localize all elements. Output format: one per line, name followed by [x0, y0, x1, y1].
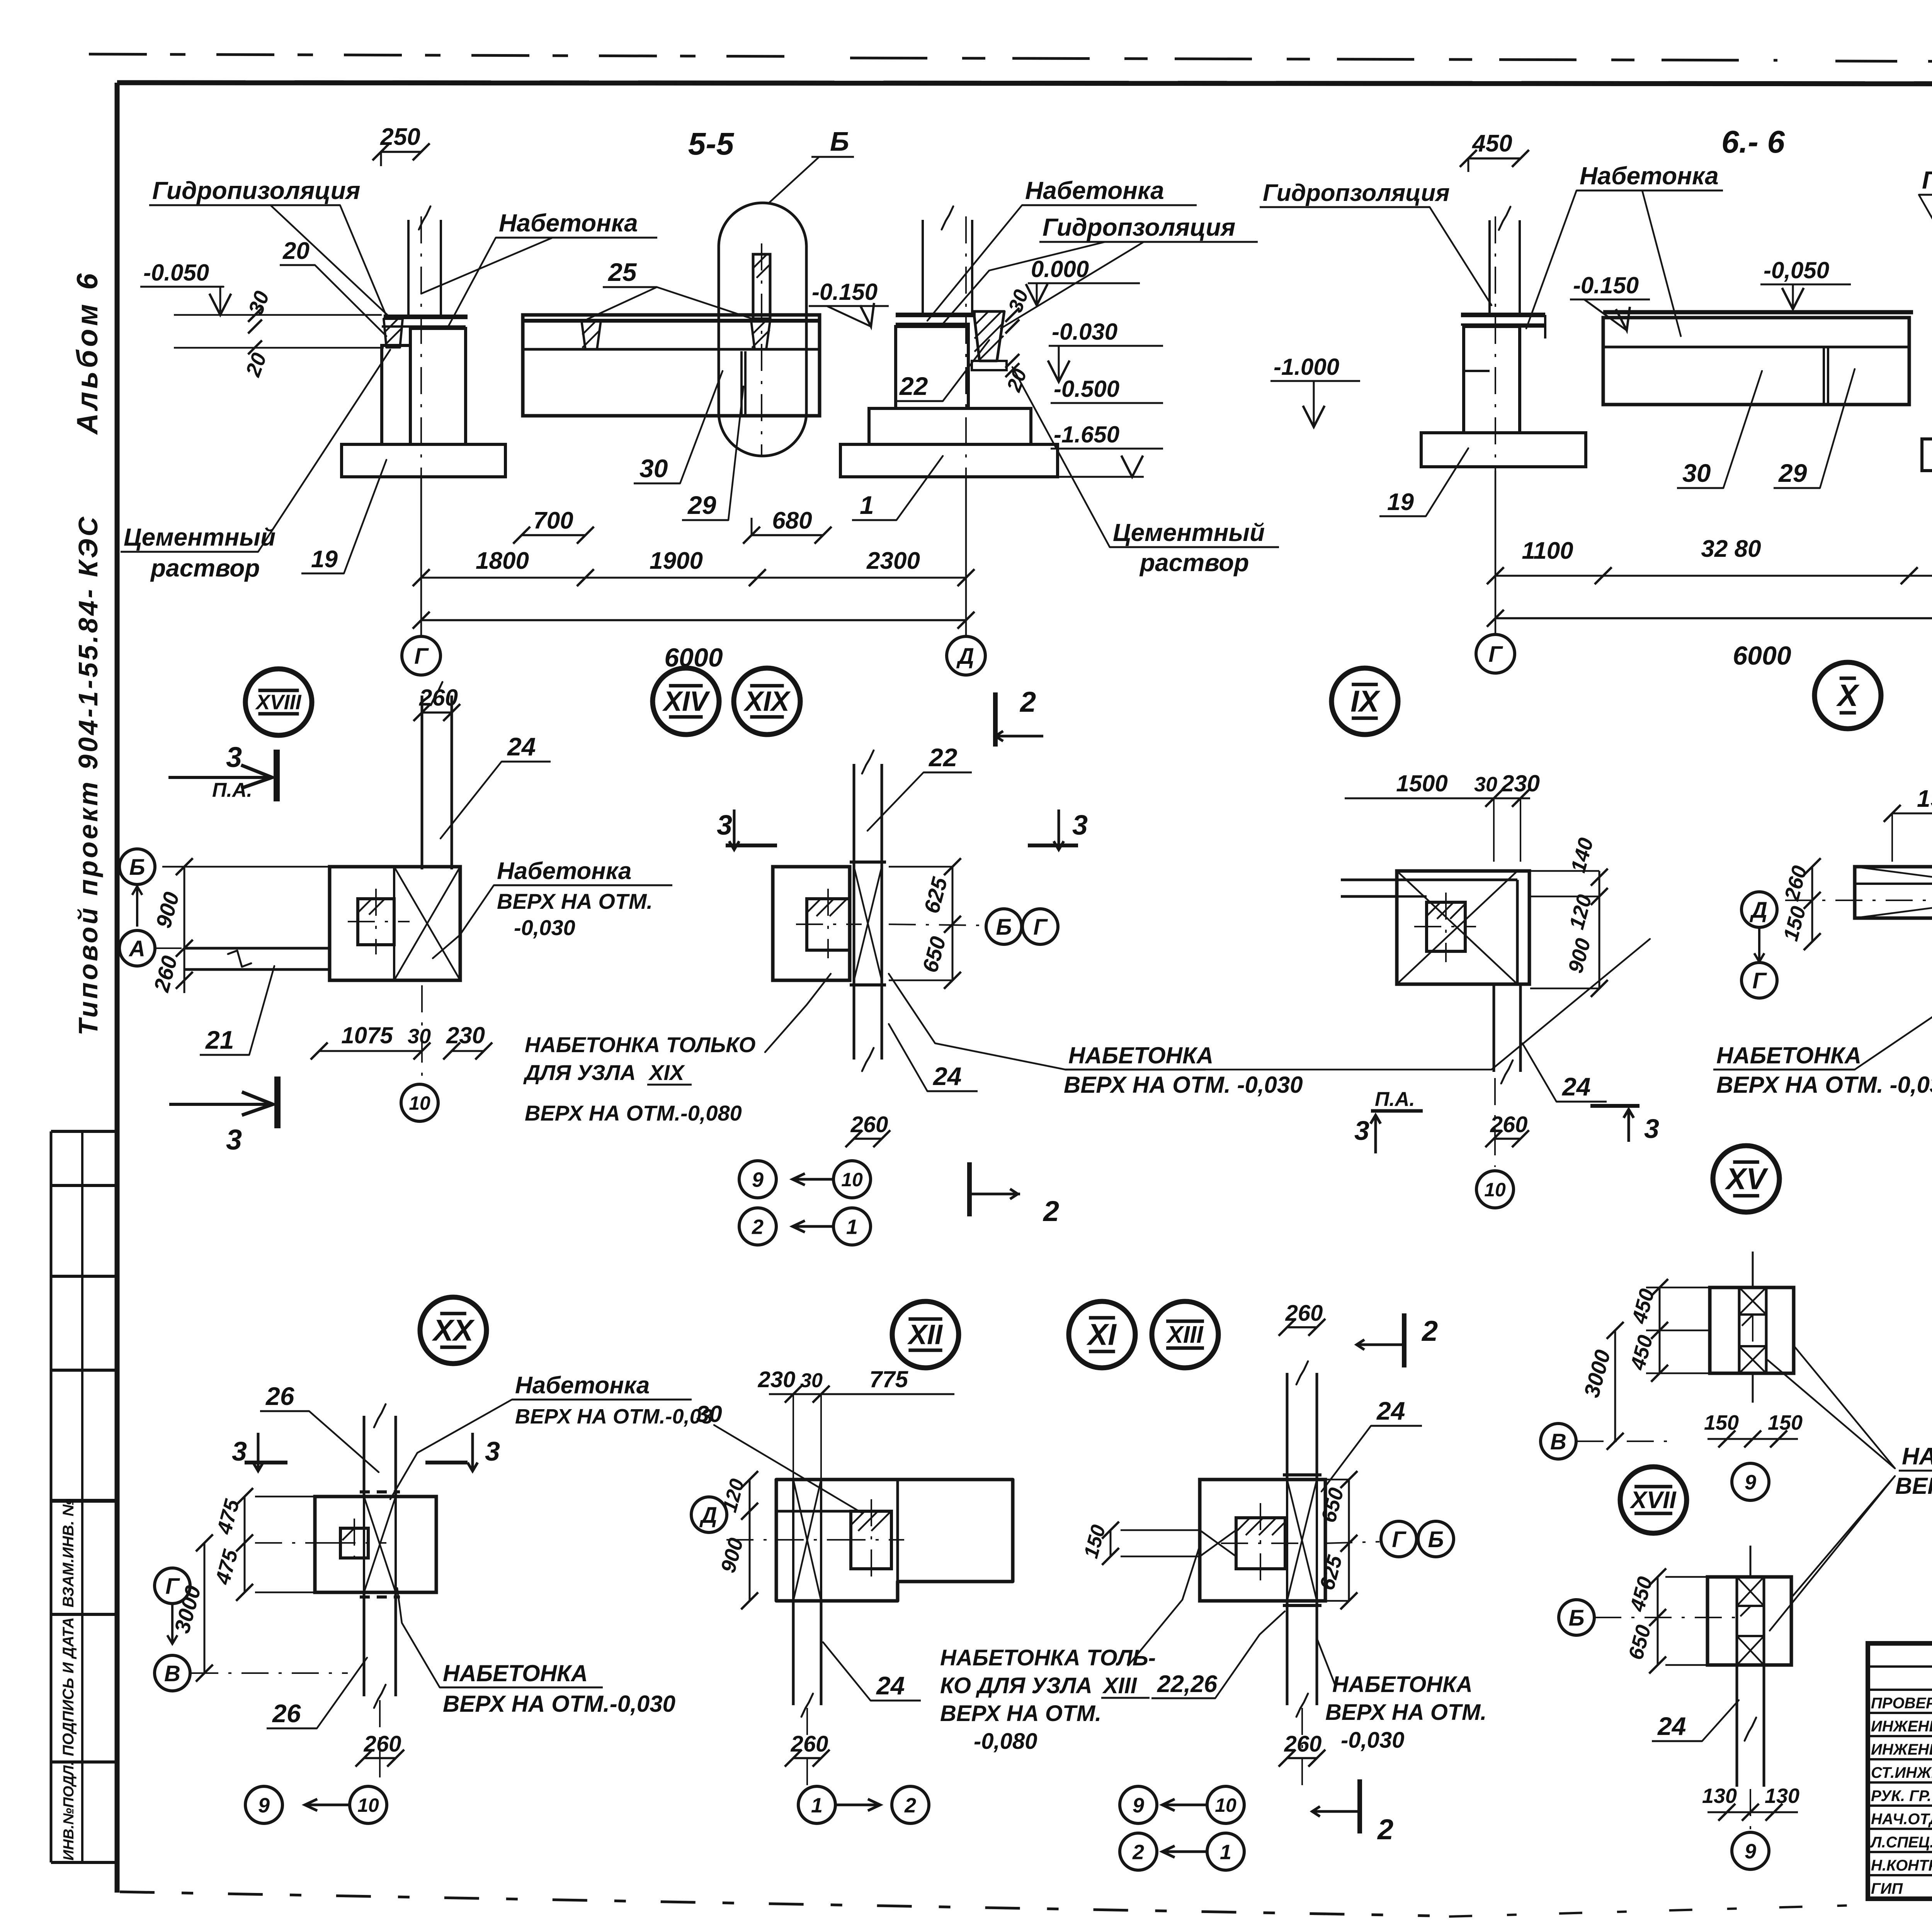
XII axis Д circle	[691, 1497, 727, 1532]
node bubble XVIII	[245, 669, 312, 735]
svg-text:Б: Б	[1428, 1527, 1444, 1552]
svg-text:6000: 6000	[1733, 641, 1791, 670]
svg-text:24: 24	[876, 1671, 905, 1700]
svg-text:НАБЕТОНКА: НАБЕТОНКА	[1902, 1443, 1932, 1470]
svg-text:3: 3	[1354, 1116, 1369, 1146]
svg-text:24: 24	[932, 1062, 961, 1090]
XVIII plan outline	[330, 867, 460, 980]
IX axis 10 circle	[1494, 1078, 1496, 1167]
svg-text:1: 1	[811, 1794, 823, 1817]
XII cross region	[793, 1480, 821, 1601]
svg-text:Г: Г	[1033, 915, 1048, 940]
svg-text:140: 140	[1566, 835, 1598, 875]
svg-text:1800: 1800	[476, 548, 529, 574]
XII plan outline	[776, 1480, 1013, 1601]
svg-text:Набетонка: Набетонка	[1025, 177, 1164, 204]
svg-text:Г: Г	[1488, 642, 1503, 667]
svg-text:Цементный: Цементный	[1113, 519, 1265, 546]
svg-text:150: 150	[1779, 904, 1810, 944]
XIII dim 260 bottom	[1287, 1757, 1317, 1759]
X slab band	[1855, 867, 1932, 918]
XX section 3 flags	[253, 1433, 263, 1471]
svg-text:СТ.ИНЖ.: СТ.ИНЖ.	[1871, 1764, 1932, 1781]
svg-text:30: 30	[244, 288, 274, 318]
XVIII hatched column	[358, 899, 394, 945]
6-6 left anchor bolts	[1488, 220, 1491, 315]
staff table rows	[1868, 1665, 1932, 1668]
svg-text:2: 2	[1377, 1813, 1393, 1845]
svg-text:НАБЕТОНКА ТОЛЬ-: НАБЕТОНКА ТОЛЬ-	[940, 1645, 1156, 1670]
svg-text:30: 30	[800, 1369, 823, 1392]
svg-text:XVII: XVII	[1629, 1487, 1677, 1514]
svg-text:2: 2	[1421, 1315, 1438, 1347]
node bubble XI	[1069, 1301, 1135, 1368]
6-6 bottom dims	[1495, 575, 1932, 577]
svg-text:260: 260	[791, 1731, 828, 1757]
svg-text:3: 3	[226, 741, 242, 773]
5-5 slab anchor slots 25	[582, 321, 601, 349]
detail bubble Б (capsule)	[719, 203, 806, 456]
XVII column below with break	[1736, 1665, 1738, 1787]
svg-text:ВЗАМ.ИНВ. №: ВЗАМ.ИНВ. №	[60, 1498, 77, 1607]
5-5 left pedestal anchor (cement pocket)	[384, 319, 403, 347]
svg-text:РУК. ГР.: РУК. ГР.	[1871, 1787, 1931, 1804]
svg-text:-1.000: -1.000	[1274, 354, 1339, 380]
IX slab band to left	[1341, 879, 1397, 881]
svg-text:9: 9	[1133, 1794, 1144, 1817]
svg-text:раствор: раствор	[150, 554, 260, 582]
svg-text:-0,030: -0,030	[1341, 1728, 1404, 1753]
svg-text:XVIII: XVIII	[255, 690, 301, 714]
node bubble XIV	[653, 668, 719, 735]
XX callout 9-10	[379, 1700, 381, 1785]
XIII cross region	[1287, 1480, 1317, 1601]
svg-text:ВЕРХ НА ОТМ.-0,03: ВЕРХ НА ОТМ.-0,03	[515, 1405, 713, 1428]
svg-text:22: 22	[928, 743, 957, 772]
IX cross lines	[1397, 871, 1517, 984]
svg-text:ВЕРХ НА ОТМ.: ВЕРХ НА ОТМ.	[497, 889, 653, 913]
svg-text:150: 150	[1080, 1522, 1110, 1561]
5-5 left anchor bolts above	[407, 220, 410, 315]
svg-text:НАБЕТОНКА: НАБЕТОНКА	[1716, 1043, 1861, 1068]
XIV nabetonka wall strip with cross	[853, 867, 855, 980]
XIV bottom flag 2	[967, 1162, 972, 1216]
XV axis В circle	[1541, 1423, 1576, 1459]
IX hatched column	[1427, 902, 1465, 951]
svg-text:22: 22	[899, 372, 928, 400]
svg-text:1100: 1100	[1522, 537, 1573, 564]
XIV axis circles Б Г	[986, 909, 1022, 944]
XVIII axis 10 circle	[421, 985, 423, 1082]
svg-text:Б: Б	[830, 126, 849, 156]
svg-text:-0,030: -0,030	[514, 915, 575, 940]
svg-text:В: В	[164, 1661, 180, 1686]
5-5 left pedestal column 19	[382, 345, 410, 444]
svg-text:900: 900	[716, 1536, 748, 1575]
svg-text:ПРОВЕРИЛ: ПРОВЕРИЛ	[1871, 1695, 1932, 1712]
node bubble IX	[1332, 668, 1398, 735]
svg-text:120: 120	[718, 1476, 748, 1515]
svg-text:260: 260	[850, 1112, 888, 1137]
svg-text:НАБЕТОНКА: НАБЕТОНКА	[1068, 1043, 1213, 1068]
svg-text:XIII: XIII	[1166, 1321, 1204, 1348]
svg-text:1: 1	[846, 1215, 858, 1238]
XVII axis Б circle	[1559, 1600, 1594, 1635]
svg-text:130: 130	[1702, 1784, 1737, 1808]
XVII dim 130 130 bottom	[1708, 1811, 1798, 1813]
svg-text:ВЕРХ НА ОТМ.-0,030: ВЕРХ НА ОТМ.-0,030	[443, 1691, 675, 1717]
XI-XIII top dim 260	[1287, 1326, 1317, 1328]
svg-text:3: 3	[717, 810, 732, 841]
svg-text:700: 700	[533, 507, 573, 534]
svg-text:6.- 6: 6.- 6	[1721, 124, 1785, 160]
svg-text:19: 19	[311, 546, 338, 573]
6-6 dim 450 top	[1468, 157, 1520, 160]
svg-text:раствор: раствор	[1139, 549, 1249, 577]
XIII dims right 650 625	[1348, 1480, 1350, 1601]
X top dims 1900 2300	[1892, 813, 1932, 815]
5-5 floor slab 30	[523, 315, 820, 416]
XX dim 3000	[204, 1543, 206, 1673]
svg-text:450: 450	[1626, 1574, 1657, 1614]
svg-text:2: 2	[752, 1215, 764, 1238]
svg-text:260: 260	[1780, 863, 1812, 903]
IX top dims 1500 30 230	[1345, 798, 1530, 799]
svg-text:680: 680	[772, 507, 812, 534]
svg-text:В: В	[1550, 1429, 1566, 1454]
svg-text:10: 10	[1484, 1179, 1506, 1201]
svg-text:Гидропзоляция: Гидропзоляция	[1043, 213, 1235, 241]
svg-text:1: 1	[1220, 1840, 1231, 1864]
svg-text:9: 9	[1745, 1840, 1756, 1863]
callout circles 9-10 / 2-1	[739, 1161, 776, 1198]
svg-text:НАБЕТОНКА: НАБЕТОНКА	[1332, 1672, 1473, 1697]
svg-text:ДЛЯ УЗЛА: ДЛЯ УЗЛА	[523, 1060, 636, 1085]
5-5 bottom dimension rows	[522, 534, 585, 536]
svg-text:22,26: 22,26	[1157, 1671, 1218, 1697]
5-5 right column above	[922, 220, 924, 315]
XVIII bottom dims 1075 30 230	[319, 1050, 422, 1052]
svg-text:0.000: 0.000	[1031, 256, 1089, 282]
XII hatched column	[851, 1511, 891, 1569]
XIV wall strip above	[853, 764, 855, 867]
svg-text:IX: IX	[1350, 684, 1381, 718]
svg-text:XIV: XIV	[662, 686, 711, 717]
svg-text:ВЕРХ НА ОТМ.: ВЕРХ НА ОТМ.	[940, 1701, 1101, 1726]
svg-text:30: 30	[696, 1401, 722, 1427]
XIII small cross left of column	[1200, 1530, 1236, 1556]
svg-text:-0.050: -0.050	[143, 260, 209, 286]
XII wall strip below	[792, 1601, 795, 1705]
XIV section marks 3	[729, 810, 739, 850]
axis circles 5-5	[402, 636, 440, 675]
axis circles 6-6	[1476, 634, 1515, 673]
svg-text:Г: Г	[1752, 968, 1767, 993]
XIII axis circles Г Б	[1381, 1521, 1417, 1557]
svg-text:-0.150: -0.150	[812, 279, 878, 305]
IX wall strip below	[1493, 984, 1495, 1072]
svg-text:Б: Б	[996, 915, 1012, 940]
svg-text:260: 260	[1284, 1731, 1322, 1757]
svg-text:24: 24	[1657, 1712, 1686, 1740]
XVIII dim 900/260 left	[184, 867, 185, 993]
XX wall strip below	[363, 1592, 366, 1696]
svg-text:9: 9	[258, 1794, 270, 1817]
svg-text:230: 230	[446, 1022, 485, 1048]
svg-text:1900: 1900	[1917, 786, 1932, 812]
svg-text:21: 21	[205, 1026, 234, 1054]
5-5 slab joint lines	[740, 351, 743, 416]
XV dim 3000	[1614, 1330, 1616, 1441]
node bubble XII	[892, 1301, 959, 1368]
svg-text:Гидропизоляция: Гидропизоляция	[152, 177, 360, 204]
XIII bottom flag 2	[1357, 1779, 1362, 1833]
svg-text:26: 26	[272, 1699, 301, 1728]
node bubble XV	[1713, 1146, 1779, 1212]
svg-text:10: 10	[357, 1794, 379, 1816]
svg-text:Д: Д	[956, 644, 974, 669]
svg-text:Г: Г	[414, 644, 429, 669]
svg-text:25: 25	[607, 258, 637, 286]
svg-text:XI: XI	[1086, 1318, 1117, 1352]
svg-text:Набетонка: Набетонка	[515, 1372, 650, 1399]
svg-text:2: 2	[1019, 686, 1036, 718]
XX nabetonka cross	[364, 1497, 396, 1592]
XII top dims 230 30 775	[769, 1393, 954, 1395]
svg-text:ИНЖЕНЕР: ИНЖЕНЕР	[1871, 1718, 1932, 1735]
svg-text:XIX: XIX	[743, 686, 791, 717]
XVIII nabetonka cross region	[394, 867, 460, 980]
svg-text:ВЕРХ НА ОТМ. -0,030: ВЕРХ НА ОТМ. -0,030	[1064, 1072, 1303, 1098]
svg-text:450: 450	[1628, 1286, 1659, 1327]
svg-text:26: 26	[265, 1382, 295, 1410]
svg-text:XII: XII	[907, 1319, 943, 1350]
IX plan outline (wall corner)	[1397, 871, 1529, 984]
svg-text:24: 24	[1561, 1072, 1590, 1101]
svg-text:650: 650	[918, 934, 951, 975]
XIV dims 625/650 right	[952, 867, 954, 980]
5-5 dim 250 at top	[381, 151, 421, 153]
svg-text:20: 20	[282, 238, 310, 264]
svg-text:30: 30	[1682, 459, 1711, 487]
svg-text:2: 2	[904, 1794, 916, 1817]
svg-text:П.А.: П.А.	[212, 779, 252, 801]
svg-text:29: 29	[1778, 459, 1807, 487]
node bubble X	[1815, 662, 1881, 729]
svg-text:Б: Б	[1568, 1605, 1584, 1631]
svg-text:9: 9	[752, 1168, 764, 1191]
svg-text:Гидропзоляция: Гидропзоляция	[1263, 180, 1450, 206]
svg-text:900: 900	[151, 889, 184, 931]
svg-text:-1.650: -1.650	[1054, 422, 1119, 447]
XVII dims 450 650 left	[1657, 1577, 1659, 1665]
svg-text:475: 475	[211, 1547, 243, 1587]
svg-text:-0,080: -0,080	[974, 1729, 1037, 1754]
X axis circles Д Г	[1742, 892, 1777, 927]
svg-text:-0.150: -0.150	[1573, 272, 1639, 298]
XX axis circles Г В	[155, 1568, 190, 1604]
6-6 left pedestal 19	[1464, 327, 1520, 433]
svg-text:120: 120	[1565, 892, 1596, 932]
svg-text:260: 260	[1285, 1301, 1323, 1326]
5-5 left pedestal baseplate 19	[342, 444, 505, 477]
svg-text:475: 475	[213, 1497, 244, 1537]
XIV dim 260 bottom	[854, 1138, 882, 1140]
svg-text:24: 24	[1376, 1396, 1405, 1425]
node bubble XIII	[1152, 1301, 1218, 1368]
svg-text:650: 650	[1624, 1622, 1655, 1662]
svg-text:НАБЕТОНКА ТОЛЬКО: НАБЕТОНКА ТОЛЬКО	[525, 1032, 755, 1057]
5-5 right pedestal column 1	[896, 327, 968, 408]
svg-text:30: 30	[639, 454, 668, 483]
svg-text:ГИП: ГИП	[1871, 1880, 1903, 1897]
svg-text:Д: Д	[699, 1503, 717, 1528]
svg-text:775: 775	[869, 1366, 909, 1392]
XX dims 475 475 left	[244, 1497, 246, 1592]
svg-text:19: 19	[1387, 489, 1414, 515]
svg-text:230: 230	[758, 1367, 796, 1392]
svg-text:П.А.: П.А.	[1375, 1088, 1415, 1111]
node bubble XVII	[1620, 1467, 1687, 1533]
svg-text:ПОДПИСЬ И ДАТА: ПОДПИСЬ И ДАТА	[60, 1617, 77, 1756]
svg-text:ВЕРХ НА ОТМ.: ВЕРХ НА ОТМ.	[1325, 1700, 1486, 1725]
svg-text:32 80: 32 80	[1701, 536, 1761, 562]
svg-text:Типовой проект 904-1-55.84-: Типовой проект 904-1-55.84- КЭС	[73, 515, 103, 1036]
XVII column section	[1708, 1577, 1791, 1665]
svg-text:Н.КОНТР.: Н.КОНТР.	[1871, 1857, 1932, 1874]
svg-text:НАЧ.ОТД-1: НАЧ.ОТД-1	[1871, 1811, 1932, 1828]
bolt inside bubble Б	[753, 254, 770, 319]
svg-text:1075: 1075	[341, 1022, 393, 1048]
svg-text:230: 230	[1501, 770, 1540, 796]
svg-text:-0,050: -0,050	[1764, 257, 1829, 283]
sheet top edge dashed line	[89, 54, 792, 56]
svg-text:КО ДЛЯ УЗЛА: КО ДЛЯ УЗЛА	[940, 1673, 1092, 1698]
svg-text:625: 625	[919, 874, 952, 916]
XIV plan outline	[773, 867, 850, 980]
svg-text:Л.СПЕЦ.Т.О: Л.СПЕЦ.Т.О	[1870, 1834, 1932, 1851]
svg-text:9: 9	[1745, 1471, 1756, 1494]
svg-text:Гидропзоляция: Гидропзоляция	[1922, 166, 1932, 194]
svg-text:5-5: 5-5	[688, 126, 735, 162]
svg-text:3: 3	[226, 1124, 242, 1156]
IX dim 260 bottom	[1494, 1138, 1520, 1140]
svg-text:2: 2	[1043, 1195, 1059, 1227]
title block outer	[1868, 1643, 1932, 1899]
XII dims left (900 120 140 on side)	[749, 1480, 751, 1601]
svg-text:Набетонка: Набетонка	[499, 209, 638, 237]
XV dims 450 450 left	[1727, 1287, 1728, 1373]
svg-text:-0.030: -0.030	[1052, 319, 1117, 345]
XV column section	[1710, 1287, 1794, 1373]
XVIII wall strip above	[421, 696, 423, 869]
svg-text:625: 625	[1315, 1553, 1347, 1592]
svg-text:Цементный: Цементный	[124, 523, 276, 551]
svg-text:3: 3	[485, 1436, 500, 1466]
XX plan outline	[315, 1497, 436, 1592]
svg-text:3: 3	[1072, 810, 1088, 841]
svg-text:ВЕРХ НА ОТМ. -0,030: ВЕРХ НА ОТМ. -0,030	[1716, 1072, 1932, 1098]
svg-text:Г: Г	[165, 1574, 180, 1599]
XII dim 260 bottom	[793, 1757, 821, 1759]
svg-text:А: А	[128, 936, 145, 961]
5-5 right anchor trapezoid 22	[974, 311, 1004, 361]
svg-text:X: X	[1836, 678, 1860, 713]
svg-text:900: 900	[1564, 936, 1595, 976]
IX dims right 140 120 900	[1599, 871, 1600, 988]
svg-text:НАБЕТОНКА: НАБЕТОНКА	[443, 1660, 588, 1686]
X dims 260 150 left	[1811, 867, 1813, 942]
svg-text:XIII: XIII	[1102, 1673, 1138, 1698]
svg-text:10: 10	[841, 1169, 863, 1190]
svg-text:Альбом 6: Альбом 6	[71, 270, 104, 435]
node bubble XIX	[734, 668, 800, 735]
XIII wall strip below	[1286, 1601, 1289, 1705]
XVII callout 9	[1750, 1789, 1751, 1832]
svg-text:Д: Д	[1749, 898, 1767, 923]
svg-text:1900: 1900	[650, 548, 703, 574]
svg-text:10: 10	[1215, 1794, 1236, 1816]
XI-XIII wall strip above	[1286, 1373, 1289, 1480]
svg-text:29: 29	[687, 491, 716, 519]
svg-text:Набетонка: Набетонка	[1580, 162, 1719, 190]
svg-text:-0.500: -0.500	[1054, 376, 1119, 402]
svg-text:1500: 1500	[1396, 770, 1447, 796]
svg-text:Набетонка: Набетонка	[497, 858, 631, 884]
node bubble XX	[420, 1297, 486, 1364]
svg-text:XX: XX	[432, 1313, 475, 1347]
5-5 right pedestal steps	[869, 408, 1031, 444]
XIII callout 9-10 2-1	[1301, 1708, 1303, 1785]
frame bottom dashed left part	[120, 1892, 1430, 1916]
svg-text:XIX: XIX	[648, 1060, 685, 1085]
svg-text:20: 20	[241, 350, 271, 380]
XVIII section mark 3 bottom	[274, 1077, 281, 1128]
svg-text:2: 2	[1132, 1840, 1144, 1864]
svg-text:2300: 2300	[866, 548, 920, 574]
svg-text:450: 450	[1626, 1333, 1658, 1373]
svg-text:ИНЖЕНЕР: ИНЖЕНЕР	[1871, 1741, 1932, 1758]
svg-text:ВЕРХ НА ОТМ. -0,080: ВЕРХ НА ОТМ. -0,080	[1895, 1473, 1932, 1499]
svg-text:150: 150	[1768, 1411, 1803, 1434]
svg-text:260: 260	[364, 1731, 401, 1757]
svg-text:250: 250	[380, 124, 420, 150]
svg-text:Б: Б	[129, 855, 145, 880]
svg-text:450: 450	[1471, 130, 1512, 157]
XV dim 150 150 bottom	[1708, 1438, 1798, 1440]
XI-XIII top flag 2	[1402, 1313, 1406, 1367]
drawing frame border	[117, 83, 1932, 84]
svg-text:130: 130	[1765, 1784, 1799, 1808]
XIII plan outline	[1200, 1480, 1325, 1601]
svg-text:ИНВ.№ПОДЛ.: ИНВ.№ПОДЛ.	[61, 1761, 77, 1861]
svg-text:3: 3	[1644, 1114, 1659, 1144]
svg-text:10: 10	[409, 1092, 430, 1114]
sidebar stamp column boxes	[50, 1131, 53, 1862]
svg-text:150: 150	[1704, 1411, 1739, 1434]
6-6 big slab 30/29	[1603, 318, 1909, 405]
svg-text:3000: 3000	[1579, 1347, 1615, 1400]
svg-text:Г: Г	[1392, 1527, 1406, 1552]
XII callout 1-2	[806, 1708, 808, 1785]
svg-text:XV: XV	[1725, 1162, 1769, 1196]
XVIII dim 260 top	[422, 711, 452, 714]
XIII dim 150 left	[1110, 1530, 1112, 1556]
XV callout 9	[1732, 1463, 1769, 1500]
svg-text:1: 1	[860, 491, 874, 519]
svg-text:30: 30	[408, 1025, 431, 1048]
svg-text:24: 24	[507, 732, 536, 761]
